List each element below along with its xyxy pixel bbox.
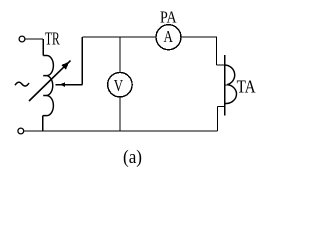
svg-text:V: V	[114, 76, 124, 95]
autotransformer TR winding	[43, 56, 54, 116]
terminal: AC input top	[19, 36, 25, 42]
wire: TR top lead	[42, 39, 44, 56]
variable-adjustment arrow through TR	[29, 61, 71, 101]
AC source symbol ~	[15, 82, 29, 86]
wire: top terminal to TR	[25, 38, 43, 40]
voltmeter V	[108, 72, 132, 97]
ammeter PA	[156, 25, 181, 50]
voltmeter branch wire bottom	[119, 97, 121, 131]
wire: tap up to top node	[81, 37, 83, 85]
terminal: AC input bottom	[18, 128, 24, 134]
wiper tap arrow of TR	[56, 84, 83, 86]
wire: top wire left of ammeter	[82, 36, 156, 38]
voltmeter branch wire top	[119, 37, 121, 73]
svg-text:(a): (a)	[123, 148, 142, 168]
wire: top wire right of ammeter	[181, 37, 217, 65]
svg-text:TA: TA	[237, 76, 256, 96]
wire: TR bottom lead	[42, 116, 44, 131]
bottom wire	[24, 130, 218, 132]
wire: TA bottom lead	[217, 107, 219, 132]
svg-text:TR: TR	[45, 29, 60, 49]
svg-text:PA: PA	[160, 7, 177, 26]
current transformer TA	[217, 55, 228, 116]
svg-text:A: A	[164, 27, 174, 46]
